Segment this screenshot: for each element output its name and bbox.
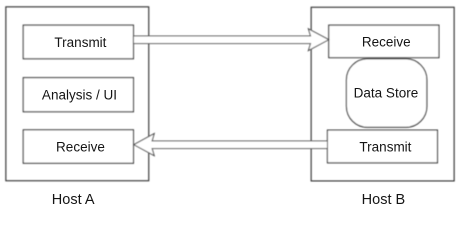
Transmit box (Host B) xyxy=(327,130,437,163)
svg-text:Host A: Host A xyxy=(52,192,95,208)
hollow arrow Host B Transmit to Host A Receive xyxy=(134,134,328,156)
svg-text:Host B: Host B xyxy=(362,192,406,208)
svg-text:Receive: Receive xyxy=(362,35,411,50)
Data Store rounded box (Host B) xyxy=(346,59,426,128)
Host A container box xyxy=(6,7,149,181)
svg-text:Transmit: Transmit xyxy=(359,140,411,155)
svg-text:Receive: Receive xyxy=(56,140,105,155)
Host B container box xyxy=(311,7,454,181)
Receive box (Host A) xyxy=(23,130,133,163)
Receive box (Host B) xyxy=(329,25,439,58)
svg-text:Data Store: Data Store xyxy=(354,85,419,100)
svg-text:Transmit: Transmit xyxy=(54,35,106,50)
Transmit box (Host A) xyxy=(23,25,133,59)
svg-text:Analysis / UI: Analysis / UI xyxy=(42,88,117,103)
Analysis / UI box (Host A) xyxy=(23,78,133,112)
hollow arrow Host A Transmit to Host B Receive xyxy=(133,29,328,51)
